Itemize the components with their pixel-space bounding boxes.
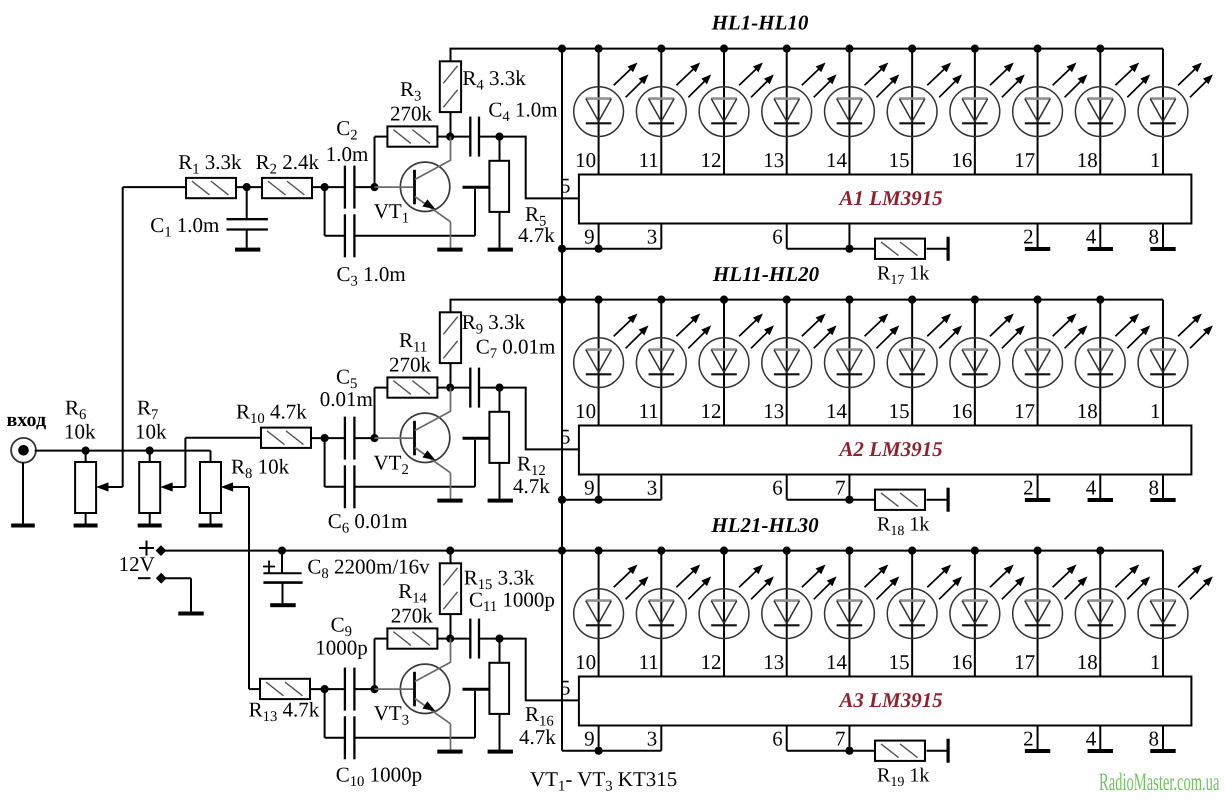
svg-text:270k: 270k <box>391 603 434 627</box>
svg-text:HL11-HL20: HL11-HL20 <box>712 262 820 286</box>
svg-text:17: 17 <box>1014 148 1035 172</box>
svg-text:4.7k: 4.7k <box>519 725 556 749</box>
svg-text:2: 2 <box>1023 224 1034 248</box>
svg-text:1.0m: 1.0m <box>326 142 369 166</box>
svg-text:12: 12 <box>701 148 722 172</box>
svg-text:15: 15 <box>889 650 910 674</box>
svg-text:10: 10 <box>575 650 596 674</box>
svg-text:3: 3 <box>647 726 658 750</box>
svg-text:11: 11 <box>639 148 659 172</box>
svg-text:HL1-HL10: HL1-HL10 <box>711 11 809 35</box>
svg-text:15: 15 <box>889 148 910 172</box>
svg-text:4: 4 <box>1086 726 1097 750</box>
svg-text:HL21-HL30: HL21-HL30 <box>710 513 819 537</box>
svg-text:8: 8 <box>1148 726 1159 750</box>
svg-text:C6 0.01m: C6 0.01m <box>328 509 408 537</box>
svg-text:6: 6 <box>772 224 783 248</box>
svg-text:C7 0.01m: C7 0.01m <box>476 335 556 363</box>
svg-text:12: 12 <box>701 399 722 423</box>
svg-text:13: 13 <box>763 650 784 674</box>
svg-text:R2 2.4k: R2 2.4k <box>256 150 320 178</box>
svg-text:10: 10 <box>575 399 596 423</box>
svg-text:10: 10 <box>575 148 596 172</box>
svg-text:5: 5 <box>560 424 571 448</box>
svg-text:1: 1 <box>1150 148 1161 172</box>
svg-text:6: 6 <box>772 475 783 499</box>
svg-text:C4 1.0m: C4 1.0m <box>488 98 557 126</box>
svg-text:A3 LM3915: A3 LM3915 <box>837 688 942 712</box>
svg-text:C1 1.0m: C1 1.0m <box>150 213 219 241</box>
svg-text:9: 9 <box>584 726 595 750</box>
svg-text:4.7k: 4.7k <box>518 223 555 247</box>
svg-text:16: 16 <box>951 650 972 674</box>
svg-text:3: 3 <box>647 224 658 248</box>
svg-text:5: 5 <box>560 173 571 197</box>
svg-text:вход: вход <box>7 409 47 431</box>
svg-text:C11 1000p: C11 1000p <box>469 588 555 616</box>
svg-text:7: 7 <box>835 726 846 750</box>
svg-text:13: 13 <box>763 399 784 423</box>
svg-text:14: 14 <box>826 148 848 172</box>
svg-text:13: 13 <box>763 148 784 172</box>
svg-text:11: 11 <box>639 399 659 423</box>
svg-text:R9 3.3k: R9 3.3k <box>462 310 526 338</box>
svg-text:14: 14 <box>826 399 848 423</box>
svg-text:16: 16 <box>951 399 972 423</box>
svg-text:5: 5 <box>560 675 571 699</box>
svg-text:18: 18 <box>1077 148 1098 172</box>
svg-text:18: 18 <box>1077 399 1098 423</box>
svg-text:10k: 10k <box>64 420 96 444</box>
svg-text:16: 16 <box>951 148 972 172</box>
svg-text:A1 LM3915: A1 LM3915 <box>837 186 942 210</box>
svg-text:12V: 12V <box>119 552 155 576</box>
svg-text:4: 4 <box>1086 475 1097 499</box>
svg-text:4.7k: 4.7k <box>513 474 550 498</box>
svg-text:R13 4.7k: R13 4.7k <box>249 698 320 726</box>
svg-text:RadioMaster.com.ua: RadioMaster.com.ua <box>1099 769 1219 796</box>
svg-text:8: 8 <box>1148 475 1159 499</box>
svg-text:1: 1 <box>1150 399 1161 423</box>
svg-text:14: 14 <box>826 650 848 674</box>
svg-text:7: 7 <box>835 475 846 499</box>
svg-text:10k: 10k <box>135 420 167 444</box>
svg-text:R1 3.3k: R1 3.3k <box>178 150 242 178</box>
svg-text:2: 2 <box>1023 726 1034 750</box>
svg-text:11: 11 <box>639 650 659 674</box>
svg-text:0.01m: 0.01m <box>320 387 373 411</box>
svg-text:17: 17 <box>1014 650 1035 674</box>
svg-text:270k: 270k <box>390 101 433 125</box>
svg-text:VT1- VT3 KT315: VT1- VT3 KT315 <box>530 767 677 795</box>
svg-text:9: 9 <box>584 475 595 499</box>
svg-text:6: 6 <box>772 726 783 750</box>
svg-text:3: 3 <box>647 475 658 499</box>
svg-text:12: 12 <box>701 650 722 674</box>
svg-text:2: 2 <box>1023 475 1034 499</box>
svg-text:18: 18 <box>1077 650 1098 674</box>
svg-text:A2 LM3915: A2 LM3915 <box>837 437 942 461</box>
svg-text:R4 3.3k: R4 3.3k <box>462 66 526 94</box>
svg-text:9: 9 <box>584 224 595 248</box>
svg-text:270k: 270k <box>389 352 432 376</box>
svg-text:C3 1.0m: C3 1.0m <box>337 262 406 290</box>
svg-text:1: 1 <box>1150 650 1161 674</box>
svg-text:4: 4 <box>1086 224 1097 248</box>
svg-text:1000p: 1000p <box>315 636 368 660</box>
svg-text:15: 15 <box>889 399 910 423</box>
svg-text:R10 4.7k: R10 4.7k <box>236 400 307 428</box>
svg-text:R8 10k: R8 10k <box>231 455 290 483</box>
svg-text:C10 1000p: C10 1000p <box>336 763 422 791</box>
svg-text:17: 17 <box>1014 399 1035 423</box>
svg-text:8: 8 <box>1148 224 1159 248</box>
